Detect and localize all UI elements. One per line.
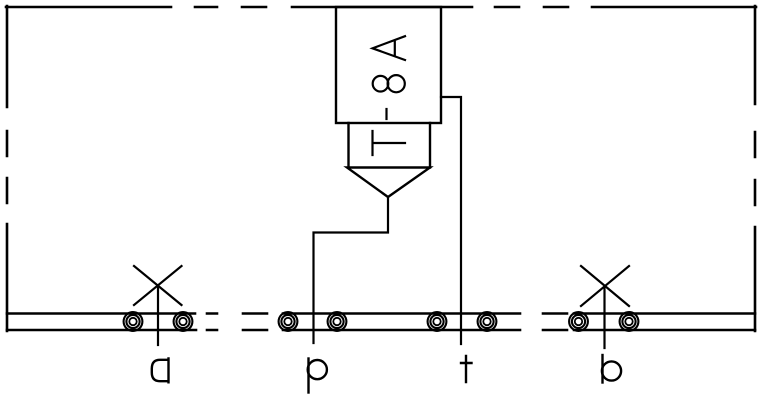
wall outline right border (dashed) xyxy=(754,6,757,331)
conduit top line (with breaks) xyxy=(7,312,755,315)
device U1 funnel triangle xyxy=(347,168,430,198)
label dash (rotated) xyxy=(385,109,387,119)
conductor circle 2 xyxy=(174,312,193,331)
label 8 (rotated) xyxy=(373,75,405,92)
wire t from device right side down to conduit xyxy=(441,97,461,344)
wire b drop xyxy=(603,286,605,348)
node label t xyxy=(461,356,472,382)
label A (rotated) xyxy=(373,36,406,60)
lamp cross a xyxy=(134,266,182,305)
node label a xyxy=(152,359,169,383)
wire p from funnel tip with jog down to conduit xyxy=(314,197,389,343)
conductor circle 7 xyxy=(569,312,588,331)
device U1 neck xyxy=(349,123,431,168)
conductor circle 6 xyxy=(478,312,497,331)
conductor circle 4 xyxy=(328,312,347,331)
node label p xyxy=(308,359,327,393)
wall outline left border (dashed) xyxy=(6,6,9,331)
conductor circle 8 xyxy=(620,312,639,331)
label T (rotated) xyxy=(373,131,406,155)
conductor circle 5 xyxy=(428,312,447,331)
conduit bottom line (with breaks) xyxy=(7,329,755,332)
node label b xyxy=(602,355,621,383)
wall outline top border (dashed) xyxy=(6,6,756,9)
conductor circle 3 xyxy=(279,312,298,331)
wire a drop xyxy=(157,286,159,345)
device U1 box T-8A xyxy=(336,7,441,123)
lamp cross b xyxy=(581,266,629,306)
conductor circle 1 xyxy=(124,312,143,331)
